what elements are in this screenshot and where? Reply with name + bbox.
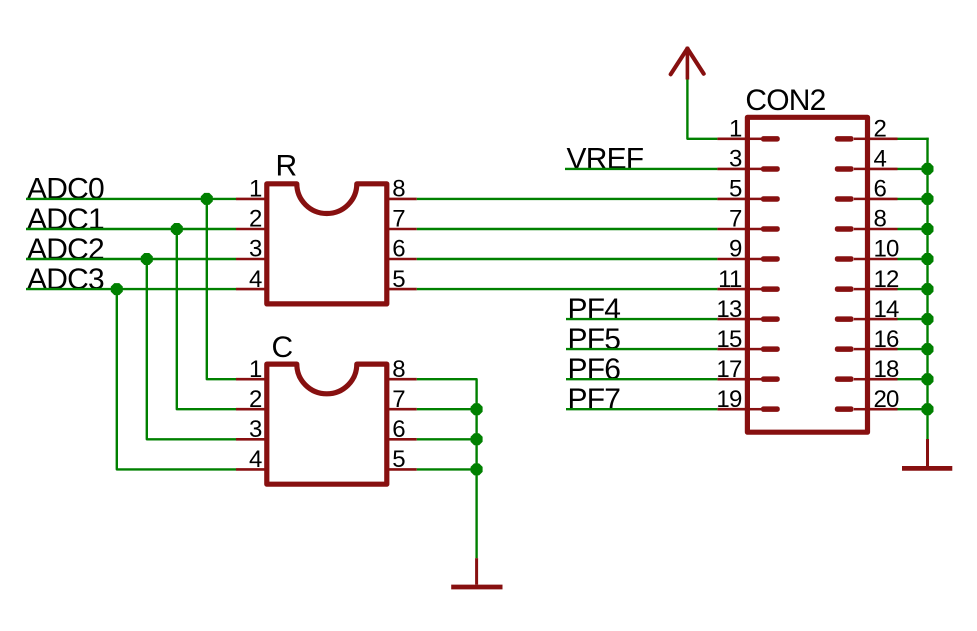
connector CON2 pin 9 stub — [750, 256, 780, 262]
wire C pin 8 to ground bus — [417, 379, 477, 558]
wire net PF5 — [566, 348, 717, 350]
capacitor C pin 1 line — [236, 378, 267, 381]
svg-text:PF6: PF6 — [568, 353, 621, 386]
connector CON2 pin 14 line — [868, 318, 898, 321]
connector CON2 pin 7 number — [729, 206, 742, 233]
resistor R pin 4 number — [249, 266, 262, 293]
wire net PF6 — [566, 378, 717, 380]
svg-text:12: 12 — [874, 266, 900, 293]
svg-text:3: 3 — [729, 146, 742, 173]
connector CON2 pin 16 number — [874, 326, 900, 353]
power VCC arrow symbol — [671, 47, 704, 80]
wire CON2 pin 16 to ground bus — [898, 348, 928, 350]
connector CON2 pin 3 number — [729, 146, 742, 173]
wire C pin 5 to ground bus — [417, 468, 477, 470]
connector CON2 pin 19 line — [717, 408, 747, 411]
junction node ADC1 — [171, 223, 183, 235]
connector CON2 pin 10 line — [868, 258, 898, 261]
svg-text:PF7: PF7 — [568, 383, 621, 416]
svg-text:2: 2 — [874, 116, 887, 143]
capacitor C pin 5 line — [387, 468, 417, 471]
wire net ADC3 horizontal — [26, 288, 236, 290]
wire CON2 pin 10 to ground bus — [898, 258, 928, 260]
resistor R name label — [276, 150, 297, 183]
wire C pin 7 to ground bus — [417, 408, 477, 410]
capacitor C pin 2 line — [236, 408, 267, 411]
wire net ADC3 vertical branch — [117, 289, 236, 469]
resistor R pin 2 number — [249, 206, 262, 233]
svg-text:CON2: CON2 — [745, 84, 825, 117]
connector CON2 pin 8 number — [874, 206, 887, 233]
ground symbol GND2 — [902, 439, 952, 468]
net label ADC0 — [27, 173, 104, 206]
junction node ADC3 — [111, 283, 123, 295]
wire ground bus right vertical — [926, 138, 928, 439]
svg-text:7: 7 — [392, 206, 405, 233]
svg-text:6: 6 — [392, 236, 405, 263]
connector CON2 pin 5 number — [729, 176, 742, 203]
svg-text:PF4: PF4 — [568, 293, 621, 326]
wire CON2 pin 18 to ground bus — [898, 378, 928, 380]
connector CON2 name label — [745, 84, 825, 117]
connector CON2 pin 13 number — [716, 296, 742, 323]
svg-text:1: 1 — [249, 176, 262, 203]
junction node ground bus at CON2 pin 14 — [921, 313, 933, 325]
svg-text:ADC1: ADC1 — [27, 203, 104, 236]
svg-text:3: 3 — [249, 416, 262, 443]
resistor R pin 6 line — [387, 258, 417, 261]
wire net ADC2 horizontal — [26, 258, 236, 260]
junction node ground bus at CON2 pin 10 — [921, 253, 933, 265]
connector CON2 pin 14 stub — [835, 316, 865, 322]
svg-text:20: 20 — [874, 386, 900, 413]
svg-text:PF5: PF5 — [568, 323, 621, 356]
connector CON2 pin 6 number — [874, 176, 887, 203]
svg-text:3: 3 — [249, 236, 262, 263]
svg-text:8: 8 — [392, 356, 405, 383]
svg-text:14: 14 — [874, 296, 900, 323]
wire net PF7 — [566, 408, 717, 410]
wire R pin 7 to CON2 — [417, 228, 718, 230]
wire R pin 8 to CON2 — [417, 198, 718, 200]
junction node ground bus at CON2 pin 20 — [921, 403, 933, 415]
capacitor C outline — [267, 364, 387, 484]
svg-text:6: 6 — [874, 176, 887, 203]
svg-text:18: 18 — [874, 356, 900, 383]
svg-text:11: 11 — [718, 266, 742, 293]
wire CON2 pin 12 to ground bus — [898, 288, 928, 290]
svg-text:4: 4 — [249, 446, 262, 473]
resistor R pin 6 number — [392, 236, 405, 263]
svg-text:5: 5 — [392, 266, 405, 293]
connector CON2 pin 3 stub — [750, 166, 780, 172]
connector CON2 pin 10 number — [874, 236, 900, 263]
connector CON2 pin 12 stub — [835, 286, 865, 292]
junction node ground bus at CON2 pin 6 — [921, 193, 933, 205]
connector CON2 outline — [747, 117, 867, 432]
svg-text:4: 4 — [249, 266, 262, 293]
connector CON2 pin 18 number — [874, 356, 900, 383]
junction node ground bus at CON2 pin 8 — [921, 223, 933, 235]
resistor R pin 3 line — [236, 258, 267, 261]
connector CON2 pin 1 stub — [750, 136, 780, 142]
net label PF4 — [568, 293, 621, 326]
net label PF7 — [568, 383, 621, 416]
connector CON2 pin 17 number — [716, 356, 742, 383]
svg-text:19: 19 — [716, 386, 742, 413]
junction node ADC0 — [201, 193, 213, 205]
connector CON2 pin 18 line — [868, 378, 898, 381]
svg-text:VREF: VREF — [567, 143, 644, 176]
connector CON2 pin 3 line — [717, 168, 747, 171]
resistor R pin 5 number — [392, 266, 405, 293]
wire net ADC1 horizontal — [26, 228, 236, 230]
connector CON2 pin 11 stub — [750, 286, 780, 292]
capacitor C pin 3 number — [249, 416, 262, 443]
connector CON2 pin 17 line — [717, 378, 747, 381]
connector CON2 pin 1 line — [717, 138, 747, 141]
connector CON2 pin 16 stub — [835, 346, 865, 352]
net label PF5 — [568, 323, 621, 356]
resistor R pin 4 line — [236, 288, 267, 291]
connector CON2 pin 10 stub — [835, 256, 865, 262]
capacitor C pin 1 number — [249, 356, 262, 383]
net label ADC1 — [27, 203, 104, 236]
connector CON2 pin 2 line — [868, 138, 898, 141]
svg-text:1: 1 — [729, 116, 742, 143]
wire CON2 pin 20 to ground bus — [898, 408, 928, 410]
junction node GND bus at C pin 7 — [471, 403, 483, 415]
connector CON2 pin 9 line — [717, 258, 747, 261]
svg-text:2: 2 — [249, 206, 262, 233]
capacitor C pin 3 line — [236, 438, 267, 441]
svg-text:7: 7 — [729, 206, 742, 233]
wire CON2 pin 4 to ground bus — [898, 168, 928, 170]
connector CON2 pin 5 line — [717, 198, 747, 201]
connector CON2 pin 6 line — [868, 198, 898, 201]
resistor R pin 3 number — [249, 236, 262, 263]
connector CON2 pin 13 stub — [750, 316, 780, 322]
wire R pin 5 to CON2 — [417, 288, 718, 290]
wire net VREF — [565, 168, 717, 170]
wire CON2 pin 6 to ground bus — [898, 198, 928, 200]
svg-text:5: 5 — [729, 176, 742, 203]
capacitor C pin 6 number — [392, 416, 405, 443]
capacitor C pin 5 number — [392, 446, 405, 473]
net label ADC2 — [27, 233, 104, 266]
svg-text:6: 6 — [392, 416, 405, 443]
svg-text:2: 2 — [249, 386, 262, 413]
connector CON2 pin 15 stub — [750, 346, 780, 352]
svg-text:ADC0: ADC0 — [27, 173, 104, 206]
connector CON2 pin 15 line — [717, 348, 747, 351]
svg-text:13: 13 — [716, 296, 742, 323]
net label PF6 — [568, 353, 621, 386]
resistor R pin 7 line — [387, 228, 417, 231]
svg-text:17: 17 — [716, 356, 742, 383]
capacitor C pin 2 number — [249, 386, 262, 413]
junction node ground bus at CON2 pin 16 — [921, 343, 933, 355]
connector CON2 pin 9 number — [729, 236, 742, 263]
connector CON2 pin 17 stub — [750, 376, 780, 382]
connector CON2 pin 19 number — [716, 386, 742, 413]
svg-text:ADC3: ADC3 — [27, 263, 104, 296]
connector CON2 pin 2 number — [874, 116, 887, 143]
svg-text:1: 1 — [249, 356, 262, 383]
connector CON2 pin 2 stub — [835, 136, 865, 142]
connector CON2 pin 1 number — [729, 116, 742, 143]
resistor R pin 5 line — [387, 288, 417, 291]
connector CON2 pin 7 stub — [750, 226, 780, 232]
connector CON2 pin 7 line — [717, 228, 747, 231]
svg-text:10: 10 — [874, 236, 900, 263]
svg-text:8: 8 — [392, 176, 405, 203]
wire R pin 6 to CON2 — [417, 258, 718, 260]
resistor R pin 1 line — [236, 198, 267, 201]
wire C pin 6 to ground bus — [417, 438, 477, 440]
wire net PF4 — [566, 318, 717, 320]
resistor R pin 2 line — [236, 228, 267, 231]
svg-text:15: 15 — [716, 326, 742, 353]
net label VREF — [567, 143, 644, 176]
capacitor C pin 4 number — [249, 446, 262, 473]
wire net ADC1 vertical branch — [177, 229, 236, 409]
connector CON2 pin 4 line — [868, 168, 898, 171]
connector CON2 pin 14 number — [874, 296, 900, 323]
capacitor C pin 7 line — [387, 408, 417, 411]
wire net ADC0 horizontal — [26, 198, 236, 200]
connector CON2 pin 6 stub — [835, 196, 865, 202]
connector CON2 pin 5 stub — [750, 196, 780, 202]
net label ADC3 — [27, 263, 104, 296]
junction node ground bus at CON2 pin 18 — [921, 373, 933, 385]
capacitor C pin 7 number — [392, 386, 405, 413]
connector CON2 pin 12 line — [868, 288, 898, 291]
ground symbol GND1 — [451, 558, 502, 587]
junction node ADC2 — [141, 253, 153, 265]
svg-text:16: 16 — [874, 326, 900, 353]
connector CON2 pin 4 stub — [835, 166, 865, 172]
connector CON2 pin 20 number — [874, 386, 900, 413]
wire CON2 pin 14 to ground bus — [898, 318, 928, 320]
connector CON2 pin 4 number — [874, 146, 887, 173]
connector CON2 pin 13 line — [717, 318, 747, 321]
wire net ADC0 vertical branch — [207, 199, 236, 379]
connector CON2 pin 11 line — [717, 288, 747, 291]
junction node ground bus at CON2 pin 12 — [921, 283, 933, 295]
junction node ground bus at CON2 pin 4 — [921, 163, 933, 175]
resistor R pin 1 number — [249, 176, 262, 203]
capacitor C pin 8 line — [387, 378, 417, 381]
wire CON2 pin 2 to ground bus — [898, 138, 929, 140]
resistor R pin 7 number — [392, 206, 405, 233]
connector CON2 pin 8 stub — [835, 226, 865, 232]
connector CON2 pin 8 line — [868, 228, 898, 231]
resistor R pin 8 number — [392, 176, 405, 203]
wire CON2 pin 8 to ground bus — [898, 228, 928, 230]
svg-text:R: R — [276, 150, 297, 183]
resistor R pin 8 line — [387, 198, 417, 201]
connector CON2 pin 12 number — [874, 266, 900, 293]
svg-text:4: 4 — [874, 146, 887, 173]
svg-text:5: 5 — [392, 446, 405, 473]
resistor R outline — [267, 184, 387, 304]
junction node GND bus at C pin 5 — [471, 463, 483, 475]
capacitor C pin 8 number — [392, 356, 405, 383]
connector CON2 pin 18 stub — [835, 376, 865, 382]
wire VCC to CON2 pin 1 — [687, 80, 717, 139]
connector CON2 pin 15 number — [716, 326, 742, 353]
junction node GND bus at C pin 6 — [471, 433, 483, 445]
connector CON2 pin 20 line — [868, 408, 898, 411]
connector CON2 pin 20 stub — [835, 406, 865, 412]
svg-text:ADC2: ADC2 — [27, 233, 104, 266]
capacitor C pin 4 line — [236, 468, 267, 471]
connector CON2 pin 16 line — [868, 348, 898, 351]
svg-text:8: 8 — [874, 206, 887, 233]
connector CON2 pin 19 stub — [750, 406, 780, 412]
connector CON2 pin 11 number — [718, 266, 742, 293]
capacitor C name label — [272, 331, 293, 364]
capacitor C pin 6 line — [387, 438, 417, 441]
svg-text:7: 7 — [392, 386, 405, 413]
wire net ADC2 vertical branch — [147, 259, 236, 439]
svg-text:C: C — [272, 331, 293, 364]
svg-text:9: 9 — [729, 236, 742, 263]
